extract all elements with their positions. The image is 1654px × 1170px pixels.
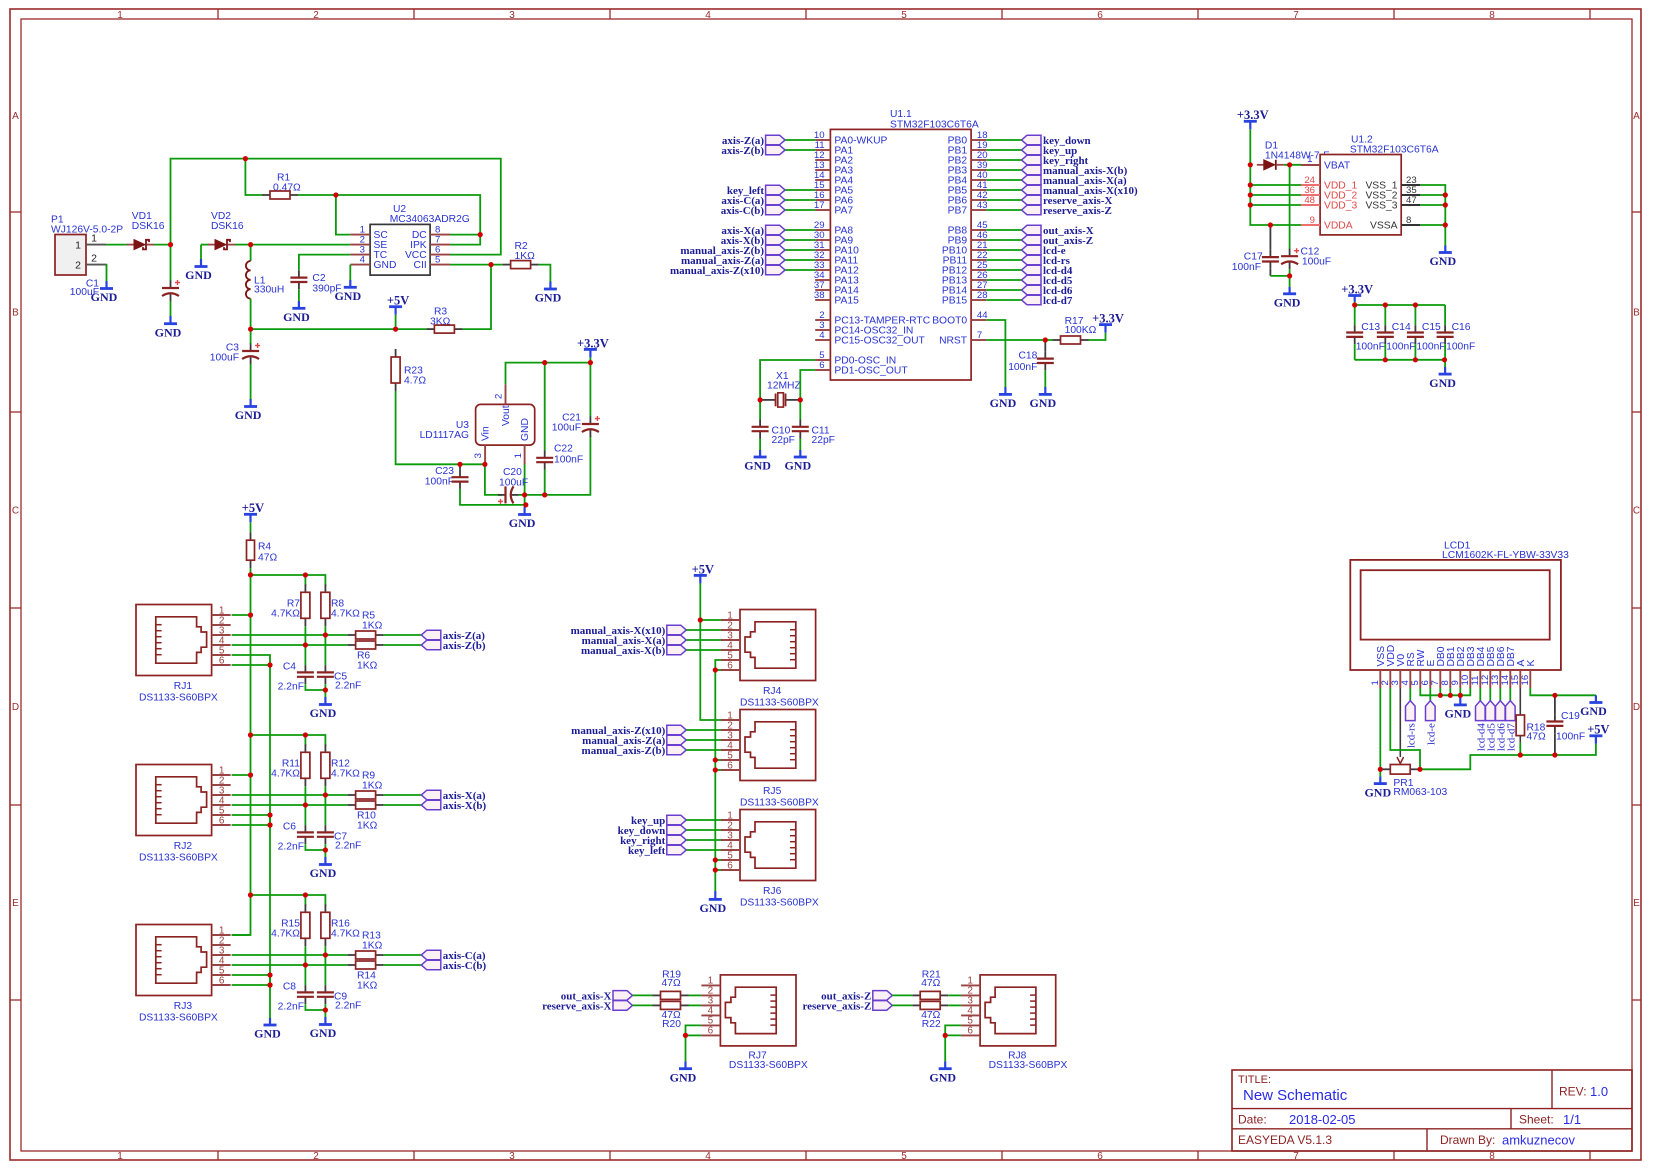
junction [1413, 302, 1418, 307]
svg-text:lcd-rs: lcd-rs [1405, 723, 1417, 748]
wire [686, 819, 721, 821]
net flag manual_axis-X(x10) [571, 625, 687, 637]
svg-text:C4: C4 [283, 662, 296, 673]
svg-text:lcd-e: lcd-e [1425, 723, 1437, 745]
wire [305, 844, 325, 850]
wire [633, 994, 653, 996]
pin 1 VSS [1370, 646, 1387, 688]
svg-text:D: D [1633, 702, 1640, 713]
svg-text:PD1-OSC_OUT: PD1-OSC_OUT [834, 366, 908, 377]
svg-text:U1.1: U1.1 [890, 109, 912, 120]
wire [986, 199, 1021, 201]
svg-text:VDD_3: VDD_3 [1324, 201, 1357, 212]
junction [1248, 192, 1253, 197]
svg-text:C16: C16 [1452, 322, 1471, 333]
wire [686, 749, 721, 751]
svg-text:TITLE:: TITLE: [1238, 1074, 1271, 1086]
wire [232, 575, 251, 935]
svg-text:4.7KΩ: 4.7KΩ [331, 769, 360, 780]
svg-text:GND: GND [535, 291, 562, 305]
junction [698, 617, 703, 622]
svg-text:C: C [1633, 506, 1640, 517]
junction [303, 962, 308, 967]
svg-text:Vin: Vin [481, 426, 492, 441]
svg-text:C23: C23 [435, 466, 454, 477]
net flag axis-C(b) [421, 960, 486, 972]
pin 7 NRST [939, 330, 986, 347]
ground [535, 282, 562, 305]
wire [304, 946, 306, 965]
wire [686, 849, 721, 851]
wire [1355, 359, 1445, 361]
wire [1444, 360, 1446, 367]
ground [91, 281, 118, 304]
wire [349, 265, 351, 280]
wire [1089, 333, 1106, 340]
net flag lcd-d4 [1022, 265, 1073, 277]
wire [201, 244, 209, 246]
pin 30 PA9 [814, 230, 853, 247]
wire [305, 1004, 325, 1010]
junction [303, 802, 308, 807]
junction [1443, 222, 1448, 227]
pin 37 PA14 [814, 280, 859, 297]
svg-text:reserve_axis-X: reserve_axis-X [542, 1000, 611, 1012]
ground [1429, 367, 1456, 390]
svg-text:C20: C20 [503, 467, 522, 478]
svg-text:2.2nF: 2.2nF [335, 841, 361, 852]
wire [200, 245, 202, 259]
junction [488, 262, 493, 267]
pin 4 RS [1400, 652, 1417, 688]
net flag key_left [727, 185, 785, 197]
label RJ3 [139, 1001, 218, 1024]
net flag lcd-rs [1405, 701, 1417, 749]
resistor R7 4.7Kohm [271, 575, 310, 626]
svg-text:VSS_3: VSS_3 [1365, 201, 1397, 212]
wire [324, 1004, 326, 1010]
svg-text:GND: GND [310, 866, 337, 880]
pin 13 PA3 [814, 160, 853, 177]
svg-text:A: A [1633, 111, 1640, 122]
svg-text:1: 1 [513, 453, 524, 458]
wire [986, 289, 1021, 291]
pin 15 PA5 [814, 180, 853, 197]
junction [248, 732, 253, 737]
pin 12 PA2 [814, 150, 853, 167]
pin 10 DB3 [1460, 646, 1477, 688]
capacitor C9 2.2nF [317, 955, 361, 1012]
net flag lcd-e [1425, 701, 1437, 745]
wire [232, 815, 270, 825]
resistor R11 4.7Kohm [271, 735, 310, 786]
svg-text:manual_axis-Z(x10): manual_axis-Z(x10) [670, 265, 764, 277]
wire [304, 626, 306, 645]
svg-text:+5V: +5V [387, 294, 409, 308]
wire [1414, 344, 1416, 360]
svg-text:100uF: 100uF [1302, 257, 1331, 268]
junction [248, 772, 253, 777]
wire [759, 439, 761, 451]
junction [1413, 357, 1418, 362]
wire [892, 994, 912, 996]
junction [323, 632, 328, 637]
svg-text:2.2nF: 2.2nF [335, 1001, 361, 1012]
svg-text:RJ3: RJ3 [174, 1001, 193, 1012]
wire [251, 895, 326, 907]
svg-text:6: 6 [219, 815, 225, 826]
svg-text:EASYEDA V5.1.3: EASYEDA V5.1.3 [1238, 1133, 1332, 1147]
svg-text:GND: GND [1029, 396, 1056, 410]
svg-text:RJ2: RJ2 [174, 841, 193, 852]
ground [744, 450, 771, 473]
svg-text:GND: GND [254, 1027, 281, 1041]
svg-text:GND: GND [1274, 296, 1301, 310]
IC U1.1 STM32F103C6T6A [830, 109, 978, 380]
wire [304, 735, 306, 747]
label RJ2 [139, 841, 218, 864]
wire [1250, 184, 1301, 186]
wire [304, 805, 306, 825]
wire [686, 639, 721, 641]
wire [945, 1034, 961, 1036]
pin 6 PD1-OSC_OUT [815, 360, 908, 377]
net flag key_up [631, 815, 686, 827]
resistor R21 47ohm [912, 970, 948, 1000]
pin 31 PA10 [814, 240, 859, 257]
wire [1249, 129, 1251, 165]
regulator U3 LD1117AG [420, 384, 535, 464]
svg-text:C22: C22 [554, 444, 573, 455]
net flag reserve_axis-X [542, 1000, 632, 1012]
svg-text:New Schematic: New Schematic [1243, 1087, 1348, 1104]
svg-text:4.7Ω: 4.7Ω [404, 376, 426, 387]
ground [1029, 387, 1056, 410]
svg-text:C8: C8 [283, 982, 296, 993]
wire [232, 964, 348, 966]
wire [232, 954, 348, 956]
junction [393, 327, 398, 332]
wire [686, 839, 721, 841]
ground [334, 280, 361, 303]
svg-text:axis-C(b): axis-C(b) [443, 960, 487, 972]
svg-text:GND: GND [155, 325, 182, 339]
wire [986, 209, 1021, 211]
wire [785, 249, 815, 251]
wire [785, 189, 815, 191]
svg-text:E: E [12, 898, 19, 909]
capacitor C22 100nF [536, 363, 583, 495]
wire [324, 844, 326, 850]
net flag manual_axis-Z(a) [681, 255, 785, 267]
svg-text:GND: GND [310, 1026, 337, 1040]
capacitor C10 22pF [752, 400, 795, 450]
junction [683, 1033, 688, 1038]
wire [589, 357, 591, 362]
svg-text:GND: GND [1364, 785, 1391, 799]
svg-text:38: 38 [814, 290, 825, 301]
junction [267, 822, 272, 827]
junction [323, 687, 328, 692]
label RJ5 [740, 786, 819, 809]
pin 2 VDD [1380, 645, 1397, 688]
svg-text:C6: C6 [283, 822, 296, 833]
svg-text:GND: GND [509, 516, 536, 530]
resistor R2 1Kohm [450, 241, 550, 281]
wire [251, 244, 351, 246]
display LCD1 LCM1602K-FL-YBW-33V33 [1350, 541, 1569, 670]
svg-text:1KΩ: 1KΩ [357, 821, 378, 832]
svg-text:GND: GND [283, 310, 310, 324]
wire [250, 568, 252, 575]
wire [785, 269, 815, 271]
svg-text:DS1133-S60BPX: DS1133-S60BPX [740, 698, 819, 709]
ground [929, 1061, 956, 1084]
capacitor C19 100nF [1546, 695, 1585, 755]
net flag manual_axis-X(x10) [1022, 185, 1139, 197]
junction [1287, 162, 1292, 167]
svg-text:4: 4 [705, 10, 711, 21]
junction [303, 572, 308, 577]
svg-text:DS1133-S60BPX: DS1133-S60BPX [139, 853, 218, 864]
wire [1420, 224, 1445, 226]
connector RJ3 DS1133-S60BPX [136, 925, 231, 996]
svg-text:BOOT0: BOOT0 [932, 316, 967, 327]
junction [1287, 273, 1292, 278]
crystal X1 12MHZ [760, 360, 815, 407]
power flag +5V [387, 294, 409, 315]
svg-text:PB15: PB15 [942, 296, 967, 307]
resistor R22 47ohm [912, 1001, 948, 1030]
wire [324, 786, 326, 795]
diode VD2 DSK16 [208, 211, 244, 249]
svg-text:GND: GND [1580, 704, 1607, 718]
svg-text:4: 4 [819, 330, 825, 341]
wire [986, 149, 1021, 151]
svg-text:REV:: REV: [1559, 1085, 1587, 1099]
net flag lcd-d4 [1475, 701, 1487, 752]
wire [986, 249, 1021, 251]
svg-text:6: 6 [1097, 10, 1103, 21]
resistor R6 1Kohm [348, 641, 384, 672]
capacitor C5 2.2nF [317, 635, 361, 692]
svg-text:2: 2 [75, 259, 81, 271]
svg-text:+3.3V: +3.3V [1092, 311, 1124, 325]
wire [1354, 344, 1356, 360]
svg-text:4: 4 [360, 255, 366, 266]
wire [1420, 688, 1470, 695]
junction [1518, 752, 1523, 757]
junction [323, 1007, 328, 1012]
wire [460, 489, 526, 505]
svg-text:43: 43 [977, 200, 988, 211]
svg-text:2: 2 [494, 394, 505, 399]
svg-text:1KΩ: 1KΩ [357, 661, 378, 672]
wire [299, 255, 350, 271]
svg-text:VBAT: VBAT [1324, 161, 1351, 172]
svg-text:47Ω: 47Ω [662, 978, 681, 989]
pin 19 PB1 [948, 140, 988, 157]
pin 14 PA4 [814, 170, 853, 187]
svg-text:manual_axis-Z(b): manual_axis-Z(b) [582, 745, 666, 757]
capacitor C6 2.2nF [278, 805, 326, 853]
wire [324, 946, 326, 955]
capacitor C3 100uF [210, 329, 260, 399]
wire [986, 169, 1021, 171]
capacitor C8 2.2nF [278, 965, 326, 1013]
wire [485, 464, 502, 495]
svg-text:key_left: key_left [628, 845, 666, 857]
svg-text:3: 3 [473, 453, 484, 458]
svg-text:D: D [12, 702, 19, 713]
svg-text:16: 16 [1520, 675, 1531, 686]
junction [267, 662, 272, 667]
net flag manual_axis-Z(b) [680, 245, 785, 257]
wire [986, 139, 1021, 141]
wire [589, 363, 591, 417]
wire [686, 829, 721, 831]
net flag out_axis-Z [1022, 235, 1094, 247]
junction [267, 812, 272, 817]
wire [785, 239, 815, 241]
resistor R19 47ohm [653, 970, 689, 1000]
wire [686, 739, 721, 741]
junction [1383, 302, 1388, 307]
resistor R17 100Kohm [1053, 316, 1106, 344]
ground [155, 316, 182, 339]
wire [250, 522, 252, 532]
wire [1420, 185, 1445, 246]
net flag manual_axis-X(a) [1022, 175, 1128, 187]
capacitor C7 2.2nF [317, 795, 361, 852]
wire [232, 774, 251, 776]
junction [713, 767, 718, 772]
wire [686, 649, 721, 651]
wire [396, 391, 485, 464]
svg-text:47Ω: 47Ω [258, 553, 277, 564]
svg-text:7: 7 [1293, 10, 1299, 21]
wire [785, 199, 815, 201]
svg-text:100uF: 100uF [70, 287, 99, 298]
power flag +3.3V [1092, 311, 1124, 332]
svg-text:2.2nF: 2.2nF [278, 842, 304, 853]
svg-text:PB7: PB7 [948, 206, 968, 217]
svg-text:RJ5: RJ5 [763, 786, 782, 797]
junction [243, 156, 248, 161]
ground [784, 450, 811, 473]
wire [986, 159, 1021, 161]
svg-text:GND: GND [929, 1070, 956, 1084]
svg-text:4.7KΩ: 4.7KΩ [271, 929, 300, 940]
wire [336, 195, 350, 235]
wire [384, 634, 422, 636]
junction [1442, 357, 1447, 362]
net flag lcd-d5 [1022, 275, 1073, 287]
wire [171, 159, 501, 255]
wire [686, 1025, 702, 1035]
wire [250, 329, 252, 344]
net flag manual_axis-X(b) [581, 645, 686, 657]
pin 18 PB0 [948, 130, 988, 147]
resistor R16 4.7Kohm [321, 904, 360, 946]
wire [250, 364, 252, 399]
svg-text:Date:: Date: [1238, 1113, 1267, 1127]
svg-text:8: 8 [1406, 215, 1411, 226]
svg-text:1KΩ: 1KΩ [362, 781, 383, 792]
pin 6 E [1420, 660, 1437, 689]
wire [304, 895, 306, 907]
pin 32 PA11 [814, 250, 858, 267]
svg-text:GND: GND [185, 268, 212, 282]
wire [170, 245, 172, 281]
label RJ6 [740, 886, 819, 909]
junction [1043, 337, 1048, 342]
connector RJ7 DS1133-S60BPX [701, 975, 796, 1046]
wire [1429, 688, 1431, 701]
wire [1444, 305, 1446, 325]
wire [785, 139, 815, 141]
wire [986, 179, 1021, 181]
ground [1274, 287, 1301, 310]
net flag axis-Z(b) [721, 145, 785, 157]
net flag manual_axis-Z(x10) [670, 265, 785, 277]
wire [384, 644, 422, 646]
wire [1289, 165, 1291, 249]
pin 5 PD0-OSC_IN [815, 350, 896, 367]
wire [232, 975, 270, 985]
svg-text:GND: GND [235, 408, 262, 422]
wire [524, 465, 526, 508]
wire [450, 264, 503, 266]
svg-text:VSSA: VSSA [1370, 221, 1398, 232]
net flag manual_axis-Z(x10) [571, 725, 686, 737]
wire [250, 245, 252, 261]
connector RJ8 DS1133-S60BPX [961, 975, 1056, 1046]
ground [699, 891, 726, 915]
wire [633, 1004, 653, 1006]
wire [324, 626, 326, 635]
net flag key_up [1022, 145, 1078, 157]
wire [506, 363, 591, 385]
capacitor C15 100nF [1407, 305, 1446, 360]
wire [986, 259, 1021, 261]
wire [298, 289, 300, 301]
wire [1250, 204, 1301, 206]
resistor R1 0.47ohm [245, 159, 336, 199]
wire [799, 439, 801, 451]
svg-text:+3.3V: +3.3V [577, 336, 609, 350]
svg-text:6: 6 [1097, 1151, 1103, 1162]
wire [1439, 688, 1441, 695]
junction [303, 892, 308, 897]
resistor R13 1Kohm [348, 931, 384, 959]
label RJ1 [139, 681, 218, 704]
net flag reserve_axis-Z [802, 1000, 892, 1012]
svg-text:100nF: 100nF [1232, 262, 1261, 273]
resistor R5 1Kohm [348, 611, 384, 639]
wire [232, 794, 348, 796]
junction [713, 667, 718, 672]
svg-text:100uF: 100uF [210, 353, 239, 364]
wire [948, 1004, 961, 1006]
ground [185, 259, 212, 282]
svg-text:R22: R22 [922, 1019, 941, 1030]
svg-text:100nF: 100nF [1416, 341, 1445, 352]
svg-text:1: 1 [75, 239, 81, 251]
svg-text:2.2nF: 2.2nF [278, 682, 304, 693]
ground [670, 1061, 697, 1084]
svg-text:GND: GND [990, 396, 1017, 410]
